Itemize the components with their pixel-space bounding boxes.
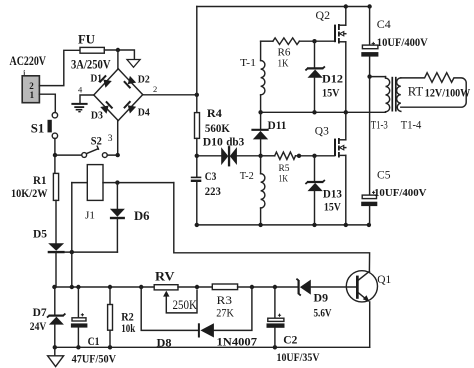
svg-text:1: 1 xyxy=(30,90,35,100)
wire D7 column xyxy=(54,287,56,315)
svg-text:D7: D7 xyxy=(33,305,47,319)
svg-text:250K: 250K xyxy=(173,298,198,312)
node diac left xyxy=(195,154,199,158)
wire T-2 top xyxy=(260,156,262,174)
capacitor C3 xyxy=(191,177,202,180)
svg-text:15V: 15V xyxy=(324,199,341,213)
svg-text:D13: D13 xyxy=(323,186,342,200)
potentiometer RV xyxy=(154,285,178,290)
wire C1 top xyxy=(77,287,79,318)
node mid rail T1 xyxy=(258,110,262,114)
wire T-1 top from R6 row xyxy=(260,41,262,60)
wire R2 top xyxy=(109,287,111,305)
node Q2 drain xyxy=(344,4,348,8)
winding T1-4 xyxy=(397,78,401,112)
resistor R1 xyxy=(53,173,58,200)
svg-text:3: 3 xyxy=(108,134,113,144)
node C4/T1-3 xyxy=(367,74,371,78)
node junction fuse/bridge xyxy=(116,48,120,52)
wire C4 top xyxy=(369,7,371,45)
node wiper tap xyxy=(195,285,199,289)
mosfet Q2 xyxy=(335,24,346,44)
svg-text:223: 223 xyxy=(205,186,221,198)
svg-text:10UF/35V: 10UF/35V xyxy=(277,352,321,364)
wire T-1 to mid rail xyxy=(260,95,262,112)
node S2 tap xyxy=(53,153,57,157)
node R2 bottom xyxy=(108,345,112,349)
wire node 2 from bridge xyxy=(143,94,197,96)
svg-text:3A/250V: 3A/250V xyxy=(71,58,111,72)
wire R5 row left xyxy=(261,155,275,157)
svg-text:RT: RT xyxy=(408,83,424,98)
wire C1 bottom xyxy=(77,328,79,348)
node rail R2 xyxy=(108,285,112,289)
wire top rail xyxy=(197,6,370,8)
wire C2 bottom xyxy=(274,328,276,348)
node ground xyxy=(53,345,57,349)
resistor R4 xyxy=(195,113,200,139)
wire J1 row right xyxy=(103,182,174,184)
svg-text:10UF/400V: 10UF/400V xyxy=(374,187,427,199)
wire C5 bottom xyxy=(369,206,371,225)
wire rail RV to R3 xyxy=(178,286,212,288)
svg-text:R6: R6 xyxy=(278,48,291,59)
svg-text:FU: FU xyxy=(78,32,96,47)
wire C3 to bottom rail xyxy=(196,181,198,225)
node D8 return xyxy=(250,285,254,289)
wire Q1 collector route xyxy=(174,183,370,272)
svg-text:T-2: T-2 xyxy=(240,170,254,182)
connector J (AC input plug) xyxy=(22,70,39,103)
svg-text:R2: R2 xyxy=(121,312,134,324)
svg-text:C4: C4 xyxy=(377,17,391,31)
fuse FU xyxy=(80,47,104,53)
zener D7 xyxy=(47,314,65,325)
svg-text:1K: 1K xyxy=(279,174,289,184)
wire D6 top xyxy=(116,183,118,209)
svg-text:Q2: Q2 xyxy=(316,8,331,22)
wire R2 bottom xyxy=(109,330,111,347)
node rail T2 xyxy=(258,223,262,227)
transformer core xyxy=(392,77,396,112)
svg-text:D1: D1 xyxy=(91,74,103,85)
wire to S2 xyxy=(55,154,82,156)
wire D5 row to D6 xyxy=(65,251,118,253)
wire Q2 source xyxy=(345,42,347,113)
svg-text:47UF/50V: 47UF/50V xyxy=(72,353,117,365)
wire D12 top xyxy=(314,41,316,68)
resistor RT loop xyxy=(401,73,466,107)
wire S2 to bridge bottom xyxy=(107,121,118,156)
svg-text:1N4007: 1N4007 xyxy=(217,336,258,348)
mosfet Q3 xyxy=(335,138,346,158)
node rail D13 xyxy=(312,223,316,227)
svg-text:R1: R1 xyxy=(33,173,47,187)
wire C4 bottom xyxy=(369,57,371,77)
switch S1 xyxy=(48,113,58,139)
node top rail right xyxy=(367,4,371,8)
svg-text:27K: 27K xyxy=(216,305,234,319)
wire bridge edge BL xyxy=(94,95,118,121)
node R5 row left xyxy=(258,154,262,158)
wire C2 top xyxy=(274,287,276,318)
wire R4 to diac row xyxy=(196,138,198,177)
capacitor C4 xyxy=(361,42,378,57)
AC line arrow xyxy=(127,60,140,68)
svg-text:S1: S1 xyxy=(31,121,45,135)
ground xyxy=(48,347,64,366)
node rail Q3 xyxy=(344,223,348,227)
diac D10 db3 xyxy=(221,146,237,166)
relay J1 xyxy=(87,165,103,201)
wire D13 column xyxy=(314,156,316,182)
wire Q1 emitter xyxy=(369,302,371,347)
diode D5 xyxy=(48,243,65,252)
svg-text:T1-4: T1-4 xyxy=(401,117,422,131)
svg-text:D12: D12 xyxy=(322,72,343,86)
svg-text:10k: 10k xyxy=(121,323,135,335)
svg-text:RV: RV xyxy=(155,268,175,283)
wire bridge edge BR xyxy=(118,95,143,121)
svg-text:AC220V: AC220V xyxy=(10,53,47,68)
svg-text:R5: R5 xyxy=(279,164,290,174)
node C2 bottom xyxy=(273,345,277,349)
svg-text:2: 2 xyxy=(153,84,157,94)
node rail C1 xyxy=(76,285,80,289)
wire mid rail xyxy=(261,111,386,113)
wire R6 row left xyxy=(261,40,273,42)
inductor T-1 xyxy=(261,61,265,95)
wire J1 row left xyxy=(72,182,88,184)
svg-text:C5: C5 xyxy=(377,168,391,182)
svg-text:D10: D10 xyxy=(203,134,223,148)
svg-text:12V/100W: 12V/100W xyxy=(425,87,471,99)
node C1 bottom xyxy=(76,345,80,349)
diode D2 xyxy=(124,76,136,88)
wire R1 to D5 xyxy=(55,200,57,243)
node rail D8 branch xyxy=(139,285,143,289)
wire R5 to Q3 gate xyxy=(296,155,335,157)
node rail D7 xyxy=(52,285,56,289)
wire diac row right xyxy=(237,155,261,157)
wire T-2 to bottom rail xyxy=(260,208,262,225)
wire S1 to R1 xyxy=(54,139,56,174)
capacitor C2 xyxy=(267,314,285,328)
svg-text:D9: D9 xyxy=(314,290,329,304)
node mid rail Q2 xyxy=(344,110,348,114)
capacitor C5 xyxy=(361,191,377,206)
svg-text:R4: R4 xyxy=(207,106,222,120)
diode D8 xyxy=(198,323,214,337)
wire pin1 to S1 xyxy=(39,94,55,112)
svg-text:5.6V: 5.6V xyxy=(314,305,332,319)
diode D4 xyxy=(124,101,136,113)
svg-text:Q3: Q3 xyxy=(315,123,329,137)
diode D11 xyxy=(251,130,268,140)
wire rail R3 to D9 xyxy=(238,286,299,288)
wire D8 branch down xyxy=(141,287,198,330)
node C2 top xyxy=(273,285,277,289)
diode D6 xyxy=(110,209,125,218)
svg-text:C3: C3 xyxy=(205,171,217,183)
svg-text:D3: D3 xyxy=(91,111,103,122)
diode D1 xyxy=(100,75,112,87)
wire D11 to R5 row xyxy=(260,139,262,155)
wire base rail xyxy=(54,286,154,288)
node S2 right xyxy=(116,153,120,157)
node rail J1 branch xyxy=(70,285,74,289)
svg-text:15V: 15V xyxy=(322,85,340,99)
wire D11 top xyxy=(260,112,262,129)
svg-text:D6: D6 xyxy=(134,208,150,223)
node rail C5 xyxy=(367,223,371,227)
svg-text:D5: D5 xyxy=(33,226,47,240)
wire D7 to ground xyxy=(54,325,56,348)
wire bridge left to earth xyxy=(80,95,94,103)
svg-text:T1-3: T1-3 xyxy=(371,117,388,131)
node mid rail D12 xyxy=(312,110,316,114)
winding T1-3 xyxy=(386,77,390,113)
node R5 right xyxy=(297,154,301,158)
transistor Q1 xyxy=(346,271,377,302)
svg-text:S2: S2 xyxy=(91,136,102,148)
svg-text:560K: 560K xyxy=(205,121,231,135)
svg-text:C1: C1 xyxy=(88,336,100,348)
node C3 bottom xyxy=(195,223,199,227)
svg-text:C2: C2 xyxy=(283,335,297,347)
node D12 top xyxy=(312,39,316,43)
wire bottom rail xyxy=(55,346,370,348)
wire D5 to rail xyxy=(55,253,57,287)
node R4 top tap xyxy=(195,93,199,97)
svg-text:10K/2W: 10K/2W xyxy=(11,186,48,200)
diode D3 xyxy=(100,101,112,113)
zener D9 xyxy=(296,279,310,296)
svg-text:T-1: T-1 xyxy=(240,57,256,69)
svg-text:Q1: Q1 xyxy=(377,272,391,286)
wire fuse to node xyxy=(104,50,134,60)
node D13 top xyxy=(312,154,316,158)
node D6 top xyxy=(115,180,119,184)
wire T1-3 top xyxy=(370,76,386,78)
resistor R6 xyxy=(273,38,300,45)
wire J1 feed vertical xyxy=(71,183,73,287)
svg-text:D11: D11 xyxy=(268,118,287,132)
svg-text:D4: D4 xyxy=(138,108,151,119)
inductor T-2 xyxy=(261,174,265,208)
resistor R3 xyxy=(212,284,237,290)
wire Q3 source xyxy=(345,155,347,225)
resistor R5 xyxy=(275,152,296,159)
wire D6 bottom to D5 row xyxy=(116,219,118,252)
wire R4 column upper xyxy=(196,7,198,113)
wire D12 to mid rail xyxy=(314,78,316,113)
wire Q2 drain xyxy=(345,7,347,26)
wire C4 column down to C5 xyxy=(369,77,371,195)
svg-text:10UF/400V: 10UF/400V xyxy=(377,37,429,49)
resistor R2 xyxy=(108,305,113,331)
wire pin2 to fuse xyxy=(39,50,80,85)
node D5/D6 row xyxy=(70,250,74,254)
zener D13 xyxy=(305,180,325,191)
wire mid-bottom rail xyxy=(197,224,369,226)
wire D9 to Q1 base xyxy=(311,286,356,288)
wire D13 to bottom rail xyxy=(314,191,316,225)
wire R6 to Q2 gate xyxy=(299,40,334,42)
svg-text:J1: J1 xyxy=(85,211,95,222)
zener D12 xyxy=(305,66,325,77)
wire bridge edge TL xyxy=(94,69,118,95)
wire D8 to rail return xyxy=(214,287,252,330)
RV wiper xyxy=(163,290,197,313)
switch S2 xyxy=(82,146,107,157)
svg-text:D2: D2 xyxy=(138,74,150,85)
wire Q3 drain xyxy=(345,112,347,140)
earth ground xyxy=(71,104,87,112)
wire bridge edge TR xyxy=(118,69,143,95)
capacitor C1 xyxy=(71,313,88,327)
wire bridge top stub xyxy=(117,50,119,69)
svg-text:1K: 1K xyxy=(278,58,289,69)
wire diac row left xyxy=(197,155,221,157)
svg-text:24V: 24V xyxy=(30,319,47,333)
